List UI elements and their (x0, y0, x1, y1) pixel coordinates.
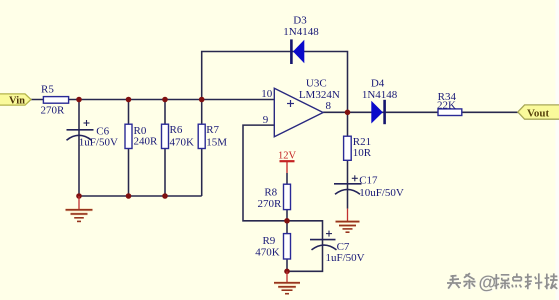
svg-text:1N4148: 1N4148 (362, 89, 398, 101)
svg-text:270R: 270R (41, 104, 66, 116)
svg-text:R9: R9 (262, 235, 275, 247)
svg-text:R5: R5 (41, 84, 54, 96)
svg-text:D3: D3 (293, 15, 307, 27)
svg-text:10: 10 (261, 88, 273, 100)
svg-text:1uF/50V: 1uF/50V (79, 137, 118, 149)
svg-text:LM324N: LM324N (299, 89, 340, 101)
svg-text:270R: 270R (257, 198, 282, 210)
svg-text:15M: 15M (206, 136, 227, 148)
svg-text:Vout: Vout (527, 107, 550, 119)
svg-text:8: 8 (325, 100, 331, 112)
svg-text:C17: C17 (359, 175, 378, 187)
svg-text:10R: 10R (353, 147, 372, 159)
svg-text:U3C: U3C (306, 78, 327, 90)
svg-text:10uF/50V: 10uF/50V (359, 187, 404, 199)
svg-text:D4: D4 (371, 77, 385, 89)
svg-text:@: @ (479, 273, 497, 293)
svg-text:9: 9 (263, 114, 269, 126)
svg-text:R8: R8 (264, 186, 277, 198)
svg-text:470K: 470K (255, 247, 280, 259)
svg-text:R7: R7 (206, 124, 219, 136)
svg-text:240R: 240R (134, 136, 159, 148)
svg-text:R6: R6 (170, 124, 183, 136)
svg-text:1uF/50V: 1uF/50V (326, 252, 365, 264)
svg-text:22K: 22K (437, 99, 456, 111)
svg-text:12V: 12V (278, 150, 297, 161)
svg-text:Vin: Vin (9, 96, 25, 107)
svg-text:1N4148: 1N4148 (283, 26, 319, 38)
svg-text:470K: 470K (170, 136, 195, 148)
